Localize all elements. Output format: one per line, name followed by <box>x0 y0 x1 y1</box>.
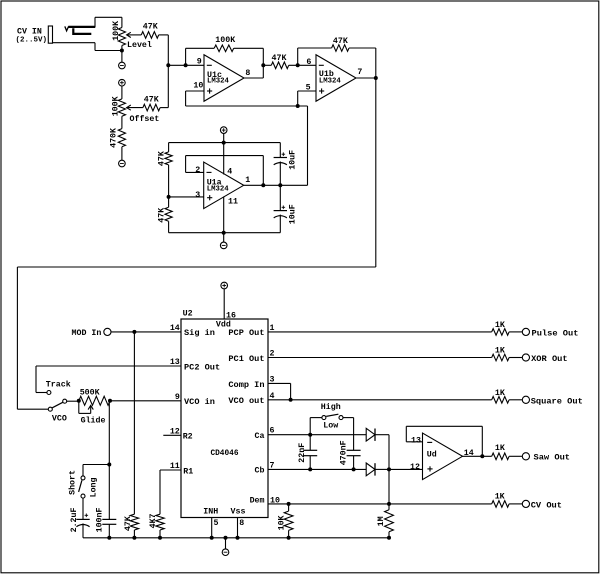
label VCO <box>52 414 67 423</box>
pin 16 label <box>226 311 236 320</box>
svg-text:47K: 47K <box>143 22 158 31</box>
svg-text:Long: Long <box>89 477 98 497</box>
pin 8 label <box>245 69 250 78</box>
node U1b inverting input <box>296 63 300 67</box>
svg-text:500K: 500K <box>80 389 100 398</box>
svg-text:CV IN: CV IN <box>17 27 42 36</box>
svg-text:VCO: VCO <box>52 414 67 423</box>
resistor 47K (upper divider) <box>165 143 172 197</box>
pin 12 label (Ud) <box>410 463 420 472</box>
svg-text:1K: 1K <box>495 321 505 330</box>
svg-text:9: 9 <box>197 58 202 67</box>
pin 12 stub R2 <box>163 434 181 436</box>
switch lever High/Low <box>326 414 338 416</box>
svg-text:Dem: Dem <box>250 497 265 506</box>
node rail 1M <box>387 536 391 540</box>
pin 11 label (4046) <box>170 462 180 471</box>
pin 2 label <box>195 166 200 175</box>
wire loop horizontal <box>17 266 375 268</box>
pin 1 wire PCP Out <box>268 331 492 333</box>
wire V+ to Offset pot <box>121 86 123 99</box>
capacitor 470nF <box>347 450 361 469</box>
svg-text:Offset: Offset <box>130 114 160 124</box>
pin 4 label (4046) <box>270 392 275 401</box>
pin 8 wire <box>237 518 239 538</box>
label 22nF <box>298 443 307 463</box>
jack J1 CV IN label <box>16 27 48 44</box>
pot Glide wiper <box>79 401 94 414</box>
node MOD In junction <box>132 330 136 334</box>
wire U1b pin 5 to reference <box>298 91 316 106</box>
jack J1 switch contact <box>73 28 91 34</box>
pin Cb name <box>255 466 265 476</box>
label 2.2uF <box>70 507 79 532</box>
resistor 100K feedback U1c <box>186 45 264 65</box>
svg-text:R1: R1 <box>183 467 193 476</box>
label Saw Out <box>534 453 571 463</box>
wire U1c pin 10 to reference <box>186 91 308 106</box>
switch throw Track <box>47 391 51 395</box>
wire loop left down <box>16 267 18 409</box>
wire divider to U1a pin 3 <box>169 196 204 198</box>
op-amp U1b input marks <box>319 65 324 93</box>
pin 10 label (4046) <box>270 496 280 505</box>
svg-text:12: 12 <box>170 427 180 436</box>
svg-text:VCO out: VCO out <box>228 396 264 406</box>
svg-text:Cb: Cb <box>255 466 265 476</box>
label XOR Out <box>531 354 568 364</box>
pin 8 label (4046) <box>239 519 244 528</box>
label Long <box>89 477 98 497</box>
wire bottom rail to V- <box>223 233 225 242</box>
pin PC2 Out name <box>184 362 220 372</box>
capacitor 22nF <box>303 450 317 469</box>
pin Comp In name <box>228 380 264 390</box>
svg-text:1K: 1K <box>495 347 505 356</box>
svg-text:7: 7 <box>357 68 362 77</box>
pin 14 label <box>170 324 180 333</box>
pin Ca name <box>255 432 265 441</box>
pin 16 wire <box>223 289 225 319</box>
svg-text:1: 1 <box>245 176 250 185</box>
potentiometer Offset 100K <box>118 99 125 116</box>
pin 11 power wire <box>223 197 225 233</box>
label 500K <box>80 389 100 398</box>
label 4K7 <box>149 513 158 528</box>
pin 3 label <box>195 191 200 200</box>
svg-text:10K: 10K <box>277 515 286 530</box>
supply V+ (U1a section) <box>220 127 227 134</box>
capacitor 10uF (lower) <box>274 185 287 232</box>
svg-text:LM324: LM324 <box>319 78 342 86</box>
svg-text:Square Out: Square Out <box>531 396 583 406</box>
label Low <box>323 422 338 431</box>
svg-text:3: 3 <box>270 375 275 384</box>
svg-text:INH: INH <box>203 507 218 516</box>
resistor 10K <box>284 504 293 538</box>
node Cb 470nF <box>352 467 356 471</box>
wire D2 cathode <box>375 468 389 470</box>
pin 9 label <box>197 58 202 67</box>
svg-text:47K: 47K <box>124 516 133 531</box>
svg-text:16: 16 <box>226 311 236 320</box>
node rail pin5 <box>210 536 214 540</box>
resistor 1K (Saw) <box>492 453 523 460</box>
wire diode junction down <box>388 469 390 504</box>
node divider midpoint <box>167 195 171 199</box>
wire pot bottom to V- supply <box>121 51 123 63</box>
label Square Out <box>531 396 583 406</box>
terminal Saw Out <box>522 453 529 460</box>
svg-text:470K: 470K <box>109 128 118 148</box>
resistor 47K (MOD In) <box>130 332 138 538</box>
resistor 47K (lower divider) <box>165 197 172 233</box>
resistor 1K (Pulse) <box>492 329 523 336</box>
pin PC1 Out name <box>228 354 264 364</box>
label 10K <box>277 515 286 530</box>
svg-text:Track: Track <box>46 380 71 390</box>
svg-text:1: 1 <box>270 324 275 333</box>
wire diode junction to Ud pin 12 <box>389 468 423 470</box>
pin 11 wire R1 <box>160 470 181 514</box>
pin Vss name <box>231 507 246 516</box>
svg-text:VCO in: VCO in <box>184 397 215 407</box>
svg-text:Vss: Vss <box>231 507 246 516</box>
wire node A to U1c pin 9 <box>168 64 204 66</box>
svg-text:47K: 47K <box>144 96 159 105</box>
pot Offset wiper <box>127 105 143 110</box>
capacitor 10uF lower polarity <box>282 206 286 210</box>
svg-text:4: 4 <box>227 167 232 176</box>
wire 47K to node A <box>159 35 169 65</box>
resistor 4K7 <box>156 514 164 538</box>
node Cb 22nF <box>308 467 312 471</box>
label CV Out <box>531 501 562 511</box>
svg-text:LM324: LM324 <box>207 78 230 86</box>
switch lever Short/Long <box>79 480 82 492</box>
label MOD In <box>72 329 102 338</box>
svg-text:6: 6 <box>270 427 275 436</box>
label High <box>321 402 341 412</box>
label 1K (Pulse) <box>495 321 505 330</box>
pin 5 label <box>306 84 311 93</box>
svg-text:CV Out: CV Out <box>531 501 562 511</box>
label Level <box>127 40 152 50</box>
svg-text:High: High <box>321 402 341 412</box>
pin 2 wire PC1 Out <box>268 357 492 359</box>
pin INH name <box>203 507 218 516</box>
pin 1 label (4046) <box>270 324 275 333</box>
switch throw VCO <box>48 407 52 411</box>
capacitor 10uF (upper) <box>274 143 287 186</box>
svg-text:10: 10 <box>270 496 280 505</box>
pin 14 label (Ud) <box>464 449 474 458</box>
pin Sig in name <box>184 328 215 338</box>
pot Level wiper <box>127 32 142 37</box>
node 10K junction <box>287 502 291 506</box>
wire switch right to 470nF <box>343 418 354 451</box>
label 47K (upper divider) <box>158 151 167 166</box>
wire D1 cathode <box>375 435 389 470</box>
potentiometer Level 100K <box>118 17 125 50</box>
switch common <box>63 399 67 403</box>
supply V+ (Vdd) <box>221 282 228 289</box>
label 100K (Offset) <box>111 96 120 116</box>
label 47K (Level) <box>143 22 158 31</box>
supply V- (below 470K) <box>119 160 126 167</box>
svg-text:Glide: Glide <box>81 415 106 425</box>
svg-text:(2..5V): (2..5V) <box>16 37 48 45</box>
svg-text:8: 8 <box>245 69 250 78</box>
wire jack switch to Level pot top <box>95 17 122 27</box>
pin 3 wire Comp In <box>268 383 291 399</box>
svg-text:47K: 47K <box>333 37 348 46</box>
svg-text:4: 4 <box>270 392 275 401</box>
pin 13 label (Ud) <box>411 437 421 446</box>
svg-text:13: 13 <box>170 358 180 367</box>
svg-text:10uF: 10uF <box>288 204 297 224</box>
svg-text:2: 2 <box>270 349 275 358</box>
label 470nF <box>340 440 349 465</box>
svg-text:LM324: LM324 <box>207 186 230 194</box>
pin 2 label (4046) <box>270 349 275 358</box>
supply V- (U1a section) <box>220 242 227 249</box>
node reference junction <box>296 104 300 108</box>
label 47K (MOD In) <box>124 516 133 531</box>
wire reference down to U1a output <box>307 106 309 185</box>
svg-text:6: 6 <box>306 58 311 67</box>
label 1K (XOR) <box>495 347 505 356</box>
node bottom rail centre <box>222 231 226 235</box>
resistor 47K (Offset to node A) <box>143 104 160 111</box>
label 100K (U1c feedback) <box>215 36 235 45</box>
svg-text:11: 11 <box>228 197 238 206</box>
svg-text:47K: 47K <box>158 208 167 223</box>
svg-text:1M: 1M <box>377 516 386 526</box>
pin 7 label <box>357 68 362 77</box>
pin 6 wire Ca <box>268 434 366 436</box>
IC U2 CD4046 box <box>181 319 268 518</box>
label Offset <box>130 114 160 124</box>
svg-text:XOR Out: XOR Out <box>531 354 568 364</box>
label 47K (U1b feedback) <box>333 37 348 46</box>
svg-text:Pulse Out: Pulse Out <box>532 328 579 338</box>
svg-text:470nF: 470nF <box>340 440 349 465</box>
wire bottom rail U1a <box>169 232 281 234</box>
svg-text:14: 14 <box>170 324 180 333</box>
svg-text:22nF: 22nF <box>298 443 307 463</box>
node U1a output feedback <box>261 183 265 187</box>
op-amp Ud label <box>427 449 437 459</box>
wire Ud output <box>463 455 492 457</box>
pin 3 label (4046) <box>270 375 275 384</box>
wire switch common to Glide <box>67 400 79 402</box>
wire jack tip to Level pot bottom <box>53 43 122 51</box>
label Glide <box>81 415 106 425</box>
svg-text:3: 3 <box>195 191 200 200</box>
wire Ud feedback <box>406 426 482 456</box>
svg-text:CD4046: CD4046 <box>210 450 238 458</box>
node Ca 22nF <box>308 433 312 437</box>
op-amp U1c <box>204 55 244 102</box>
jack J1 body <box>48 26 52 43</box>
label 100K (Level) <box>112 21 121 41</box>
pin 7 label (4046) <box>270 461 275 470</box>
label 47K (Offset) <box>144 96 159 105</box>
capacitor 2.2uF polarity <box>85 514 89 518</box>
node Glide left <box>77 399 81 403</box>
wire 47K offset to node A <box>160 65 168 107</box>
op-amp U1b labels <box>319 69 342 86</box>
label Track <box>46 380 71 390</box>
pin 12 label <box>170 427 180 436</box>
capacitor 2.2uF <box>76 498 89 538</box>
svg-text:7: 7 <box>270 461 275 470</box>
terminal Pulse Out <box>522 328 529 335</box>
svg-text:1K: 1K <box>495 389 505 398</box>
label 10uF (lower) <box>288 204 297 224</box>
svg-text:Low: Low <box>323 422 338 431</box>
wire U1b output <box>356 77 376 79</box>
label 1M <box>377 516 386 526</box>
supply V+ (above Offset pot) <box>119 79 126 86</box>
label 1K (Square) <box>495 389 505 398</box>
label 47K (interstage) <box>272 54 287 63</box>
pin 4 label <box>227 167 232 176</box>
svg-text:Level: Level <box>127 40 152 50</box>
wire top rail U1a <box>169 142 281 144</box>
wire U1a output <box>244 184 308 186</box>
pin 5 wire <box>211 518 213 538</box>
label Pulse Out <box>532 328 579 338</box>
svg-text:13: 13 <box>411 437 421 446</box>
svg-text:47K: 47K <box>158 151 167 166</box>
label 1K (CV) <box>495 493 505 502</box>
pin 9 label (4046) <box>175 393 180 402</box>
pin VCO in name <box>184 397 215 407</box>
node Level pot bottom <box>120 49 124 53</box>
IC U2 part number <box>210 450 238 458</box>
op-amp U1a input marks <box>207 172 213 200</box>
resistor 47K feedback U1b <box>298 45 376 78</box>
diode D2 (Cb) <box>366 463 375 476</box>
resistor 47K (U1c to U1b) <box>263 62 316 69</box>
node rail ground <box>224 536 228 540</box>
node A junction <box>166 63 170 67</box>
wire U1c output <box>244 65 263 78</box>
svg-text:1K: 1K <box>495 444 505 453</box>
node Ud output <box>480 454 484 458</box>
svg-text:100K: 100K <box>112 21 121 41</box>
pin 13 label <box>170 358 180 367</box>
svg-text:100K: 100K <box>111 96 120 116</box>
terminal CV Out <box>522 500 529 507</box>
node top rail centre <box>222 141 226 145</box>
svg-text:10: 10 <box>193 82 203 91</box>
wire bottom rail <box>83 537 389 539</box>
label 1K (Saw) <box>495 444 505 453</box>
label 10uF (upper) <box>288 150 297 170</box>
svg-text:12: 12 <box>410 463 420 472</box>
svg-text:47K: 47K <box>272 54 287 63</box>
pin R1 name <box>183 467 193 476</box>
pin 7 wire Cb <box>268 468 366 470</box>
svg-text:Saw Out: Saw Out <box>534 453 571 463</box>
resistor 47K (Level to node A) <box>141 32 158 39</box>
wire to Short/Long switch <box>83 465 109 476</box>
node U1c inverting input <box>184 63 188 67</box>
label 470K <box>109 128 118 148</box>
pin 1 label <box>245 176 250 185</box>
svg-text:Ca: Ca <box>255 432 265 441</box>
resistor 1K (CV) <box>492 501 523 508</box>
svg-text:9: 9 <box>175 393 180 402</box>
wire V+ to top rail <box>223 133 225 142</box>
svg-text:PC2 Out: PC2 Out <box>184 362 220 372</box>
resistor 1M <box>385 504 394 538</box>
switch throw High right <box>339 416 343 420</box>
svg-text:R2: R2 <box>183 433 193 442</box>
svg-text:4K7: 4K7 <box>149 513 158 528</box>
label 47K (lower divider) <box>158 208 167 223</box>
svg-text:Comp In: Comp In <box>228 380 264 390</box>
svg-text:U2: U2 <box>183 310 193 319</box>
resistor 470K <box>118 116 125 160</box>
terminal XOR Out <box>522 354 529 361</box>
pin 9 wire VCO in <box>110 400 181 402</box>
supply V- (ground) <box>222 549 229 556</box>
label Short <box>68 470 78 495</box>
svg-text:8: 8 <box>239 519 244 528</box>
svg-text:100K: 100K <box>215 36 235 45</box>
node rail 10K <box>287 536 291 540</box>
node U1c output <box>261 63 265 67</box>
node rail pin8 <box>236 536 240 540</box>
svg-text:10uF: 10uF <box>288 150 297 170</box>
node U1b output <box>374 76 378 80</box>
op-amp U1c labels <box>207 71 230 86</box>
wire MOD In to pin 14 <box>111 331 181 333</box>
IC U2 refdes <box>183 310 193 319</box>
op-amp U1a <box>204 162 244 209</box>
pin 13 wire PC2 Out to Track <box>36 366 181 393</box>
op-amp U1a labels <box>207 178 230 193</box>
op-amp U1c input marks <box>207 65 212 93</box>
svg-text:11: 11 <box>170 462 180 471</box>
supply V- (below Level pot) <box>119 62 126 69</box>
potentiometer Glide 500K <box>79 396 110 405</box>
node Glide right <box>108 399 112 403</box>
pin 10 wire Dem <box>268 503 492 505</box>
pin 6 label (4046) <box>270 427 275 436</box>
pin R2 name <box>183 433 193 442</box>
jack J1 tip contact <box>65 26 95 30</box>
svg-text:Short: Short <box>68 470 78 495</box>
node rail 47K <box>132 536 136 540</box>
pin PCP Out name <box>228 328 264 338</box>
wire U1a feedback box <box>186 156 264 186</box>
pin VCO out name <box>228 396 264 406</box>
capacitor 100nF <box>102 519 116 537</box>
svg-text:1K: 1K <box>495 493 505 502</box>
node Comp In to VCO out <box>289 398 293 402</box>
wire Glide node down <box>108 401 110 520</box>
svg-text:2.2uF: 2.2uF <box>70 507 79 532</box>
switch throw High left <box>322 416 326 420</box>
node rail 4K7 <box>158 536 162 540</box>
wire loop to VCO throw <box>17 408 48 410</box>
pin 11 label <box>228 197 238 206</box>
